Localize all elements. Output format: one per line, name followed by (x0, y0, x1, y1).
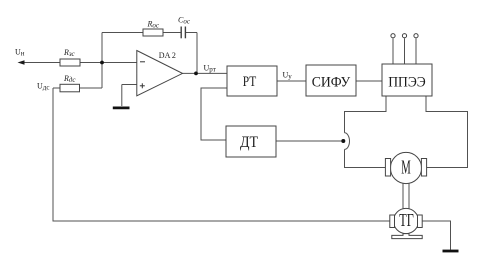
svg-text:ДТ: ДТ (240, 134, 258, 151)
svg-text:Uрт: Uрт (204, 64, 216, 74)
svg-text:Rдс: Rдс (63, 74, 76, 84)
svg-text:DA 2: DA 2 (159, 51, 176, 60)
svg-text:Сос: Сос (178, 16, 191, 26)
svg-text:Rос: Rос (147, 20, 160, 30)
svg-text:РТ: РТ (243, 74, 257, 90)
svg-text:СИФУ: СИФУ (312, 74, 351, 90)
svg-text:Uу: Uу (283, 71, 293, 81)
svg-text:М: М (401, 158, 411, 179)
svg-text:Uн: Uн (15, 48, 25, 58)
svg-text:ППЭЭ: ППЭЭ (388, 75, 426, 91)
svg-text:Rзс: Rзс (63, 48, 76, 58)
svg-text:ТГ: ТГ (399, 210, 414, 230)
svg-text:Uдс: Uдс (37, 82, 49, 92)
